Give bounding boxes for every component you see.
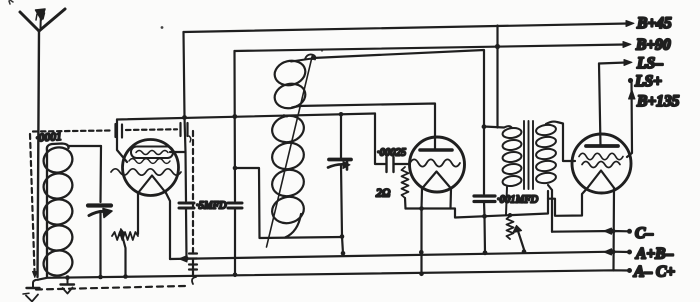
node rheostat on A- bus	[123, 274, 128, 279]
tube V3 envelope	[572, 134, 631, 193]
wire coil L3 bottom tail	[285, 214, 301, 238]
shield box dashed bottom edge	[36, 286, 185, 290]
svg-text:·001MFD: ·001MFD	[497, 195, 539, 206]
tube V3 plate	[586, 144, 618, 148]
wire tuning cap bottom lead	[99, 211, 101, 277]
ink speck	[9, 0, 13, 4]
svg-text:LS–: LS–	[636, 55, 663, 72]
variable capacitor C6 (regen/tune)	[328, 160, 351, 170]
wire tube2 plate to tickler	[297, 104, 435, 151]
arrow B+45	[626, 21, 634, 27]
arrow LS-	[624, 60, 632, 66]
tube V3 filament	[587, 171, 615, 189]
arrow B+90	[623, 42, 631, 48]
grid leak R2	[402, 167, 409, 198]
node R3 wiper on A+B bus	[522, 249, 527, 254]
tube V1 plate	[131, 147, 173, 159]
node tuning cap to A- bus	[98, 275, 103, 280]
wire coil L1 top to tuning cap	[69, 146, 102, 148]
node C5 on A- bus	[233, 273, 238, 278]
transformer T1 primary winding	[502, 127, 522, 187]
node A+B- on V3 riser	[611, 249, 616, 254]
shield box dashed top edge	[33, 131, 111, 132]
variable capacitor C1 (tuning)	[88, 206, 112, 218]
wire A+B- bus	[170, 252, 629, 259]
node C6 on A+B bus	[341, 251, 346, 256]
tube V2 envelope	[410, 137, 465, 192]
node R3 top on filament run	[508, 213, 512, 217]
wire grid line left corner down to tube1 grid	[117, 120, 127, 163]
ground G1 (dashed shield ground)	[23, 280, 40, 302]
wire grid line (tube1 grid box top, runs to tube2 grid cap)	[117, 114, 375, 120]
wire tube1 plate stub	[170, 151, 186, 153]
tube V3 grid row 1	[579, 153, 623, 159]
node riser on B+90 line	[495, 44, 500, 49]
wire primary top connector	[484, 127, 504, 128]
wire LS- line	[599, 63, 626, 64]
tube V2 filament	[422, 172, 451, 189]
svg-text:·0001: ·0001	[35, 131, 62, 145]
bypass cap symbols on dashed right edge	[189, 249, 197, 284]
wire C- line	[552, 230, 629, 233]
wire tickler top lead	[291, 59, 312, 62]
wire V2 filament return riser	[420, 209, 422, 275]
ink speck 2	[161, 26, 164, 29]
rheostat R1 wiper arrow	[119, 229, 126, 278]
tube V1 inner wavy row	[129, 159, 170, 164]
antenna	[20, 9, 65, 277]
capacitor C7 .001MFD	[474, 196, 495, 202]
node .5MFD on A+B bus	[184, 256, 189, 261]
wire V3 filament left leg	[548, 189, 587, 216]
node C7 on A+B bus	[483, 250, 488, 255]
arrow C- at junction	[604, 228, 612, 234]
node V2 riser on A- bus	[419, 272, 424, 277]
wire tickler feed to transformer (top)	[313, 50, 484, 127]
svg-text:B+45: B+45	[636, 15, 672, 32]
wire riser from B+45/B+90 to transformer primary	[496, 26, 498, 128]
coupling adjust arrow through coils	[267, 54, 316, 247]
svg-text:LS+: LS+	[634, 73, 662, 90]
wire V2 filament right leg	[449, 189, 452, 209]
svg-text:·5MFD: ·5MFD	[196, 201, 227, 212]
shield box dashed left edge	[30, 134, 35, 271]
capacitor C5 (bypass at x=235)	[228, 203, 242, 208]
svg-text:A– C+: A– C+	[633, 264, 675, 281]
node C6 on grid line	[339, 112, 344, 117]
node LS+	[628, 78, 633, 83]
wire x=235 riser (coil2 return)	[233, 51, 236, 201]
tube V2 plate	[420, 148, 452, 152]
wire V1 filament right leg to A+B bus corner	[166, 193, 170, 259]
tube V1 envelope	[123, 140, 179, 196]
wire T1 secondary top lead to tube3 grid	[546, 122, 575, 161]
ink speck 3	[321, 49, 323, 51]
svg-text:A+B–: A+B–	[635, 246, 674, 263]
rheostat R3 wiper arrow	[513, 226, 525, 252]
capacitor plates on dashed top edge (right pair)	[181, 123, 191, 142]
wire V3 plate lead up	[599, 64, 601, 147]
svg-text:B+90: B+90	[635, 37, 671, 54]
wire grid line right corner down to grid cap C4	[375, 114, 385, 165]
rheostat R3	[507, 216, 514, 239]
wire A- C+ bus	[38, 270, 629, 279]
wire V2 filament left leg	[420, 189, 423, 209]
wire T1 secondary bottom lead to C-	[548, 185, 552, 232]
wire .5MFD bottom lead to A+B bus	[185, 208, 188, 259]
wire .001 cap feed (from transformer primary node)	[483, 127, 485, 195]
capacitor plates on dashed top edge (left pair)	[116, 124, 123, 138]
node riser on grid line	[232, 114, 237, 119]
wire tuning cap top lead	[99, 146, 102, 202]
wire C6 bottom lead	[341, 165, 343, 254]
svg-text:2Ω: 2Ω	[376, 188, 391, 200]
ground G2	[61, 279, 75, 294]
wire T1 primary bottom lead	[506, 187, 507, 215]
tube V2 grid	[410, 159, 460, 166]
node C6 return joins coil2 return	[340, 234, 345, 239]
node A+B- terminal dot	[627, 250, 632, 255]
wire coil2 bottom return	[235, 168, 342, 238]
node plate line crosses grid line	[182, 115, 187, 120]
node V2 filament left	[419, 206, 424, 211]
capacitor C4 grid cap	[387, 157, 394, 172]
wire C7 bottom lead	[484, 202, 485, 254]
node V2 riser on A+B bus	[419, 250, 424, 255]
node tickler to plate feed	[311, 56, 315, 60]
wire B+135 drop to tube3	[627, 81, 632, 158]
node ground G2 on A- bus	[65, 275, 70, 280]
node A-C+ terminal dot	[627, 268, 632, 273]
tube V1 grid	[111, 169, 181, 175]
wire V2 filament bottom run	[406, 191, 549, 218]
wire tickler bottom lead	[292, 106, 299, 108]
shield box dashed right edge	[192, 131, 194, 249]
arrow A+B- at junction	[604, 249, 612, 255]
arrow on A+B bus at shield junction	[179, 256, 187, 262]
wire C5 bottom lead to A- bus	[234, 208, 236, 275]
svg-text:·00025: ·00025	[377, 148, 406, 159]
transformer T1 core	[524, 121, 533, 189]
arrow B+135	[629, 90, 636, 100]
rheostat R1	[112, 232, 138, 240]
svg-text:C–: C–	[635, 225, 653, 242]
node transformer primary tap	[482, 124, 487, 129]
tube V3 grid row 2	[582, 162, 620, 168]
coil L1 left rail	[47, 144, 69, 151]
shield box dashed top edge middle	[126, 128, 177, 131]
tickler coil L2 loops	[272, 58, 308, 112]
svg-text:B+135: B+135	[636, 93, 680, 110]
wire B+45 riser (tube1 plate line)	[184, 32, 187, 201]
capacitor C3 .5MFD	[179, 203, 194, 208]
node C7 on filament run	[482, 214, 487, 219]
wire coil L3 top tap	[284, 115, 287, 116]
wire B+90 top line	[235, 45, 626, 52]
wire V3 filament right leg riser	[612, 188, 615, 271]
node coil2-return tap	[233, 166, 238, 171]
wire B+45 top line	[184, 24, 629, 33]
coil L3 secondary loops	[269, 113, 306, 227]
wire R2 bottom lead	[404, 198, 407, 209]
transformer T1 secondary winding	[535, 124, 556, 185]
node C- terminal dot	[627, 229, 632, 234]
wire V1 filament left leg	[137, 193, 139, 234]
tube V1 filament	[138, 176, 166, 194]
wire C4 to tube2 grid	[394, 163, 411, 165]
coil L1 loops	[41, 144, 75, 278]
wire T1 primary top lead	[504, 126, 512, 128]
wire C6 top lead	[340, 114, 342, 158]
node C- on V3 riser	[611, 229, 616, 234]
